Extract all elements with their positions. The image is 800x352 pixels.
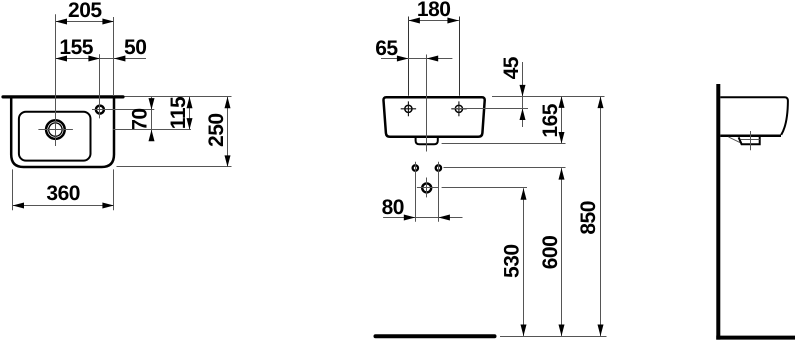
wall line (rear edge, thick)	[3, 95, 123, 98]
basin outer outline	[11, 97, 114, 167]
dimension 115 arrow top	[187, 97, 193, 109]
dimension 360 line	[13, 205, 114, 207]
siphon trap front	[416, 138, 438, 145]
right edge extension line	[113, 17, 115, 96]
dimension 250 arrow top	[225, 97, 231, 109]
siphon trap side	[739, 137, 760, 144]
dimension 50 arrow	[114, 56, 126, 62]
dimension 65 arrow left	[397, 56, 409, 62]
svg-text:165: 165	[539, 103, 562, 137]
dimension 250 line	[227, 97, 229, 167]
dimension 530 arrow bottom	[521, 325, 527, 337]
drain extension line right	[113, 129, 191, 131]
wall gland right centerline	[438, 162, 440, 222]
dimension 70 arrow bottom	[149, 130, 155, 142]
dimension 205 arrow right	[102, 19, 114, 25]
dimension 80 arrow right	[438, 215, 450, 221]
supply level extension line	[442, 187, 527, 189]
dimension 850 arrow top	[598, 97, 604, 109]
dimension 80 arrow left	[404, 215, 416, 221]
floor extension line thin	[500, 336, 607, 338]
drain cross vertical (side)	[750, 131, 752, 150]
dimension 600 arrow top	[559, 168, 565, 180]
trap bottom extension line	[442, 143, 566, 145]
wall gland left centerline	[415, 162, 417, 222]
svg-text:70: 70	[129, 108, 152, 130]
dimension 115 arrow bottom	[187, 118, 193, 130]
dimension 205 arrow left	[56, 19, 68, 25]
mounting hole right crosshair	[451, 101, 466, 116]
dimension 360 arrow right	[102, 203, 114, 209]
hole level extension line	[452, 108, 528, 110]
drain cross horizontal (side)	[741, 139, 760, 141]
dimension 180 line	[408, 20, 459, 22]
dimension 65 arrow right	[427, 56, 439, 62]
dimension 165 arrow top	[559, 96, 565, 108]
drain crosshair horizontal	[38, 129, 73, 131]
mounting hole left	[405, 105, 412, 112]
svg-text:45: 45	[500, 56, 523, 79]
mounting hole right	[455, 105, 462, 112]
dimension 70 line	[151, 97, 153, 141]
dimension 80 line	[383, 217, 462, 219]
faucet hole	[96, 106, 104, 114]
dimension 155 arrow right	[88, 56, 100, 62]
dimension 155 arrow left	[56, 56, 68, 62]
wall gland right	[436, 165, 441, 170]
dimension 180 arrow right	[447, 18, 459, 24]
dimension 360 extension right	[113, 169, 115, 210]
svg-text:850: 850	[577, 201, 600, 235]
basin top extension line right	[492, 96, 605, 98]
dimension 600 line	[561, 168, 563, 336]
dimension 70 arrow top	[149, 98, 155, 110]
dimension 530 arrow top	[521, 188, 527, 200]
svg-text:360: 360	[46, 182, 80, 205]
dimension 360 arrow left	[13, 203, 25, 209]
wall line (side view)	[716, 84, 720, 340]
wall gland left	[413, 165, 418, 170]
dimension 155 line	[56, 58, 100, 60]
svg-text:600: 600	[539, 236, 562, 270]
dimension 530 line	[523, 188, 525, 336]
extension line left hole	[408, 17, 410, 96]
svg-text:205: 205	[68, 0, 102, 22]
drain outer circle	[46, 120, 65, 139]
dimension 850 arrow bottom	[598, 325, 604, 337]
extension line right hole	[459, 17, 461, 96]
faucet crosshair / extension to 70 dim	[92, 109, 154, 111]
dimension 65 line	[381, 58, 452, 60]
underside contour slant	[729, 137, 741, 143]
dimension 850 line	[600, 97, 602, 336]
dimension 45 line	[522, 62, 524, 127]
faucet centerline vertical	[99, 54, 101, 118]
dimension 205 line	[56, 21, 114, 23]
svg-text:180: 180	[417, 0, 451, 21]
drain inner circle	[49, 123, 62, 136]
svg-text:115: 115	[167, 96, 190, 129]
svg-text:530: 530	[501, 244, 524, 278]
supply crosshair	[417, 178, 439, 198]
dimension 115 line	[189, 97, 191, 130]
svg-text:250: 250	[205, 113, 228, 147]
water supply circle	[422, 183, 431, 192]
basin side profile top and front edge	[720, 97, 788, 135]
dimension 250 arrow bottom	[225, 155, 231, 167]
dimension 360 extension left	[12, 169, 14, 210]
dimension 600 arrow bottom	[559, 325, 565, 337]
dimension 45 arrow top	[520, 85, 526, 97]
svg-text:155: 155	[59, 36, 93, 59]
svg-text:50: 50	[124, 36, 146, 59]
dimension 180 arrow left	[408, 18, 420, 24]
dimension 45 arrow bottom	[520, 109, 526, 121]
drain centerline	[426, 55, 428, 152]
dimension 50 tail line	[100, 58, 146, 60]
drain centerline / extension for 205 155	[55, 14, 57, 146]
floor line thick (front view)	[376, 334, 495, 338]
top extension line right	[125, 96, 232, 98]
svg-text:80: 80	[382, 196, 404, 219]
gland level extension line	[444, 167, 566, 169]
floor line (side view)	[716, 336, 795, 340]
dimension 165 arrow bottom	[559, 132, 565, 144]
svg-text:65: 65	[375, 37, 398, 60]
mounting hole left crosshair	[401, 101, 416, 116]
basin inner rim	[19, 112, 91, 161]
dimension 165 line	[561, 96, 563, 143]
basin front outline	[383, 97, 484, 137]
bottom extension line right	[117, 166, 232, 168]
basin side bottom edge	[720, 135, 781, 138]
